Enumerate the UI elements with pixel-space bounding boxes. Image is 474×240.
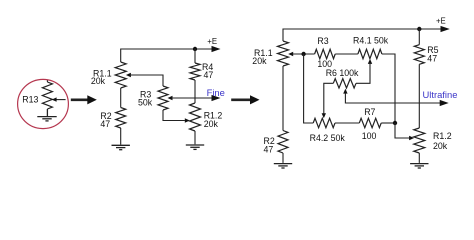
svg-text:20k: 20k — [433, 141, 448, 151]
Ultrafine output arrow — [440, 100, 449, 106]
wire R2 to ground — [120, 128, 122, 145]
potentiometer R1.1 (right) — [278, 41, 289, 66]
Fine output arrow — [212, 95, 221, 101]
wire R4 to R1.2 — [194, 80, 196, 103]
label R2 47 (right) — [264, 136, 275, 155]
+E arrow (left) — [212, 46, 221, 52]
wire R4.1 right end down to R7 node — [382, 54, 395, 123]
wire: top rail left circuit — [121, 49, 213, 62]
svg-text:47: 47 — [264, 145, 274, 155]
svg-text:47: 47 — [100, 119, 110, 129]
R1.2 wiper arrowhead (right) — [409, 136, 414, 140]
potentiometer R3 (left) — [158, 86, 168, 110]
wire: top rail right circuit — [283, 29, 442, 41]
label R1.2 20k — [204, 111, 223, 130]
R13 ground — [37, 109, 56, 121]
resistor R2 (left) — [116, 108, 126, 129]
wire R5 to R1.2 (right) — [418, 64, 420, 128]
resistor R3 (right) — [315, 49, 336, 58]
svg-text:R13: R13 — [22, 95, 38, 105]
svg-text:20k: 20k — [91, 76, 106, 86]
R6 wiper arrow down to Ultrafine line — [343, 89, 440, 103]
svg-text:Fine: Fine — [207, 87, 225, 98]
wire R3 bottom to R1.2 wiper — [163, 110, 185, 121]
svg-text:R4.1 50k: R4.1 50k — [353, 36, 389, 46]
label R3 50k — [138, 90, 153, 108]
label R1.2 20k (right) — [433, 131, 452, 151]
svg-text:+E: +E — [207, 37, 217, 46]
R13 wiper arrow — [52, 97, 66, 101]
junction dot wiper node — [301, 52, 305, 56]
potentiometer R1.2 (right) — [414, 128, 425, 153]
svg-text:R1.2: R1.2 — [433, 131, 452, 141]
svg-text:100: 100 — [362, 131, 377, 141]
red circle highlight — [18, 79, 69, 128]
label R4 47 — [202, 62, 213, 80]
svg-text:Ultrafine: Ultrafine — [423, 89, 458, 100]
wire R4.2 to R7 — [335, 122, 359, 124]
wire R7 to node — [381, 122, 395, 124]
potentiometer R4.1 — [358, 49, 382, 58]
wire node down to R1.2 wiper (right) — [395, 123, 410, 138]
wire R2 to ground (right) — [282, 153, 284, 163]
resistor R2 (right) — [278, 131, 288, 154]
wire node down to R4.2 — [304, 54, 314, 123]
ground (left circuit, left branch) — [112, 145, 130, 149]
wire top dot to R5 — [418, 29, 420, 45]
resistor R4 — [190, 63, 200, 80]
svg-text:R4.2 50k: R4.2 50k — [310, 133, 346, 143]
label R1.1 20k — [91, 69, 112, 87]
R1.1 wiper arrow to node dot — [288, 52, 314, 56]
svg-text:+E: +E — [436, 17, 446, 26]
potentiometer R1.1 (left) — [115, 62, 126, 88]
potentiometer R13 — [42, 80, 52, 109]
label R2 47 — [100, 111, 111, 129]
big transition arrow 1 — [71, 95, 97, 104]
svg-text:47: 47 — [204, 70, 214, 80]
ground (right circuit, right branch) — [410, 164, 428, 168]
svg-text:20k: 20k — [204, 119, 219, 129]
potentiometer R6 — [333, 79, 356, 88]
R1.1 wiper arrow and wire to R3 top — [126, 73, 163, 86]
junction dot top rail right — [417, 27, 421, 31]
big transition arrow 2 — [231, 95, 259, 104]
label R7 / 100 — [362, 107, 377, 141]
svg-text:R7: R7 — [364, 107, 375, 117]
R6 left end down to R4.2 wiper arrow — [322, 83, 334, 118]
svg-text:20k: 20k — [252, 56, 267, 66]
label R5 47 — [427, 45, 438, 64]
ground (left circuit, right branch) — [186, 145, 204, 149]
resistor R5 — [414, 45, 424, 65]
wire R3 to R4.1 — [335, 53, 358, 55]
wire R1.1 to R2 (right) — [282, 66, 284, 131]
resistor R7 — [359, 118, 381, 127]
junction dot top rail — [193, 47, 197, 51]
ground (right circuit, left branch) — [274, 164, 292, 168]
wire top dot to R4 — [194, 49, 196, 63]
wire R1.2 to ground — [194, 131, 196, 144]
junction dot R7 node — [393, 121, 397, 125]
svg-text:47: 47 — [427, 54, 437, 64]
svg-text:R3: R3 — [317, 36, 328, 46]
potentiometer R1.2 (left) — [190, 103, 201, 131]
wire R1.1 to R2 — [120, 88, 122, 108]
svg-text:50k: 50k — [138, 97, 153, 107]
svg-text:R6 100k: R6 100k — [326, 68, 359, 78]
label R3 / 100 — [317, 36, 332, 69]
+E arrow (right) — [441, 26, 450, 32]
wire R1.2 to ground (right) — [418, 153, 420, 163]
R1.2 wiper arrowhead (left) — [185, 118, 190, 122]
potentiometer R4.2 — [313, 118, 335, 127]
R3 wiper arrow wire to Fine — [168, 96, 213, 100]
label R1.1 20k (right) — [252, 48, 272, 66]
R4.1 wiper arrow from R6 right end — [356, 59, 372, 83]
